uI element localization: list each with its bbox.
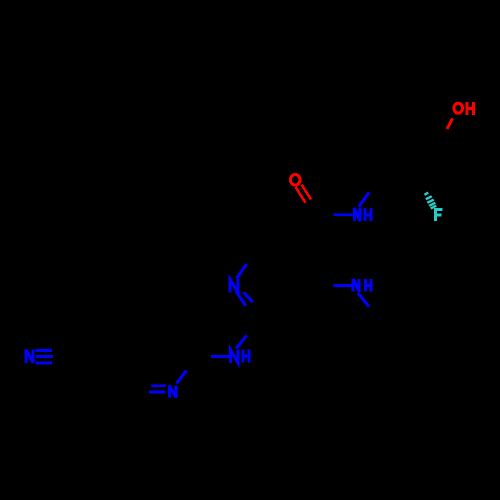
bottom pyridine N label bbox=[169, 385, 176, 397]
bond N#C triple stub (N halves, three lines) bbox=[35, 349, 52, 352]
nitrile N label bbox=[26, 350, 33, 363]
bond hashed wedge to F (F half, hash marks) bbox=[424, 192, 437, 210]
fluorine F label bbox=[436, 210, 443, 222]
linker N-H label (between rings) bbox=[231, 350, 250, 364]
bond ringC-N stub (N half, horizontal) bbox=[333, 284, 351, 287]
central pyridine N label bbox=[230, 279, 238, 293]
methylamino N-H label bbox=[353, 279, 371, 292]
bond N-C6 stub (N half, up-right) bbox=[237, 264, 247, 278]
carbonyl O label (amide C=O oxygen) bbox=[290, 175, 300, 186]
hydroxyl O-H label (OH top right) bbox=[454, 102, 474, 115]
bond N-C2(central) stub (N half, up-right) bbox=[236, 335, 246, 348]
amide N-H label bbox=[354, 208, 371, 221]
bond stub C-OH (O half) bbox=[447, 119, 453, 130]
bond C=O double stub (O halves) bbox=[302, 185, 312, 200]
bond N-C2(bottom pyridine) stub (N half, horizontal) bbox=[211, 355, 229, 358]
bond N=C2 double stub (N halves, down-right) bbox=[236, 291, 246, 306]
bond amideC-N stub (N half, horizontal) bbox=[333, 213, 352, 216]
bond N=C6 double stub (N halves, horizontal left) bbox=[151, 384, 166, 387]
bond N-C1' stub (N half, up-right) bbox=[359, 192, 369, 207]
bond N-CH3 stub (N half, down-right) bbox=[358, 293, 369, 307]
bond N-C2 stub (N half, up-right) bbox=[177, 371, 187, 384]
